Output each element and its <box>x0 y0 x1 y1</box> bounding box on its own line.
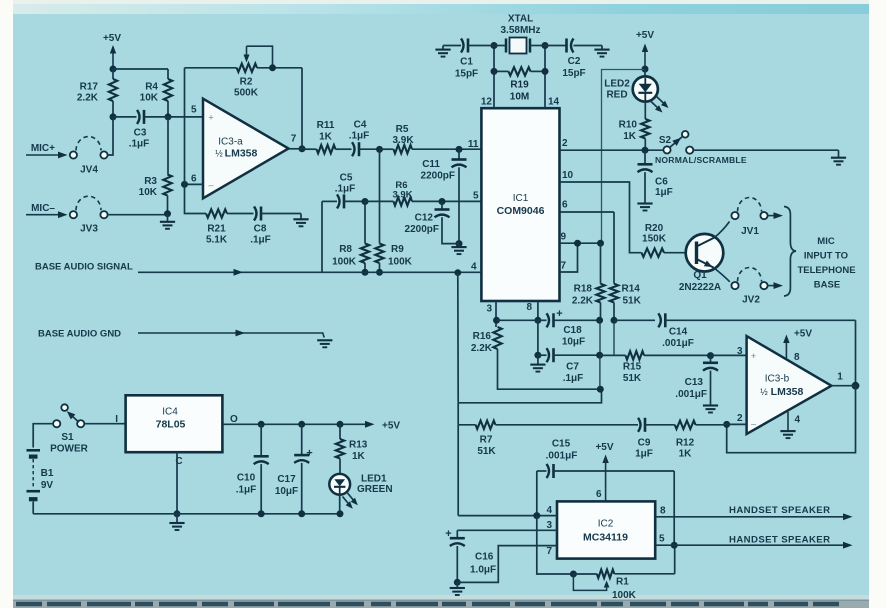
svg-text:S2: S2 <box>659 135 672 146</box>
ground (C8) <box>293 214 308 227</box>
svg-text:8: 8 <box>794 352 800 363</box>
resistor R10 <box>619 101 650 150</box>
svg-text:R14: R14 <box>622 284 641 295</box>
wire (pin2 stub) <box>727 423 747 425</box>
node F (R2 wiper tie) <box>269 64 276 71</box>
svg-text:R2: R2 <box>240 77 253 88</box>
capacitor C4 <box>349 120 380 157</box>
node AN (C10 bottom) <box>258 510 265 517</box>
svg-text:10: 10 <box>562 170 574 181</box>
svg-text:10μF: 10μF <box>275 486 298 497</box>
svg-text:–: – <box>208 180 213 190</box>
svg-text:+: + <box>208 113 213 123</box>
pin 7b label <box>561 261 567 272</box>
svg-text:R20: R20 <box>645 223 664 234</box>
svg-text:C13: C13 <box>685 377 704 388</box>
svg-text:6: 6 <box>562 200 568 211</box>
pin 6 label <box>562 200 568 211</box>
svg-text:2: 2 <box>737 413 743 424</box>
svg-text:11: 11 <box>468 139 479 150</box>
svg-text:HANDSET SPEAKER: HANDSET SPEAKER <box>729 535 830 546</box>
capacitor C16 (electrolytic) <box>445 528 496 582</box>
node AD (IC3-b output) <box>831 382 859 390</box>
svg-text:BASE AUDIO GND: BASE AUDIO GND <box>38 329 121 340</box>
node U (R18 top) <box>597 240 604 247</box>
svg-text:LM358: LM358 <box>771 386 804 398</box>
wire (C15 to pin5) <box>673 471 675 545</box>
wire (output to R2) <box>289 68 303 149</box>
ground (C6) <box>637 204 652 211</box>
svg-text:C1: C1 <box>460 57 473 68</box>
potentiometer R2 <box>185 46 303 98</box>
wire (IC1 pin2 row) <box>560 149 664 151</box>
node AE (pin2 node) <box>723 421 730 428</box>
pin 9 label <box>561 232 567 243</box>
svg-text:.1μF: .1μF <box>236 485 257 496</box>
wire (R14 line down) <box>613 320 615 355</box>
capacitor C5 <box>322 173 365 209</box>
svg-text:+5V: +5V <box>382 421 400 432</box>
svg-text:3.9K: 3.9K <box>392 135 414 146</box>
svg-text:C5: C5 <box>340 173 353 184</box>
node M (base-sig / R7 branch) <box>454 269 461 276</box>
svg-text:S1: S1 <box>61 432 74 443</box>
wire (IC1 pin10 to R20) <box>560 182 642 253</box>
svg-text:JV4: JV4 <box>80 165 98 176</box>
resistor R3 <box>139 117 172 214</box>
node V (pin3 bottom) <box>493 317 500 324</box>
svg-text:R7: R7 <box>480 435 493 446</box>
jumper JV1 <box>731 198 783 238</box>
svg-text:C17: C17 <box>277 474 296 485</box>
svg-text:INPUT TO: INPUT TO <box>804 251 848 262</box>
svg-text:C16: C16 <box>475 552 494 563</box>
resistor R13 <box>336 424 368 474</box>
node AI (pin5 node) <box>671 542 678 549</box>
svg-text:R12: R12 <box>676 438 695 449</box>
resistor R14 <box>610 212 642 320</box>
svg-text:.1μF: .1μF <box>129 139 150 150</box>
svg-text:BASE: BASE <box>814 280 840 291</box>
svg-text:.001μF: .001μF <box>675 389 707 400</box>
svg-text:1K: 1K <box>352 451 366 462</box>
node AA (C7 left) <box>534 352 541 359</box>
svg-text:10M: 10M <box>510 92 529 103</box>
node AL (C17 top) <box>298 421 305 428</box>
pin 2 label <box>562 138 568 149</box>
svg-text:51K: 51K <box>477 446 496 457</box>
node P (R19 left) <box>491 68 498 75</box>
resistor R21 <box>206 209 254 245</box>
svg-text:5.1K: 5.1K <box>206 235 228 246</box>
svg-text:BASE AUDIO SIGNAL: BASE AUDIO SIGNAL <box>35 262 133 273</box>
svg-text:1μF: 1μF <box>655 187 673 198</box>
svg-text:4: 4 <box>795 415 801 426</box>
svg-text:R16: R16 <box>473 331 492 342</box>
node AP (LED1 bottom) <box>337 510 344 517</box>
svg-text:1K: 1K <box>623 131 637 142</box>
svg-text:R17: R17 <box>80 82 99 93</box>
capacitor C3 <box>113 110 168 150</box>
pin 3 label (IC1) <box>486 304 492 315</box>
svg-text:C10: C10 <box>237 473 256 484</box>
svg-text:+5V: +5V <box>636 30 654 41</box>
wire (S1 to battery) <box>33 424 53 448</box>
svg-text:R9: R9 <box>391 244 404 255</box>
svg-text:4: 4 <box>471 262 477 273</box>
svg-text:100K: 100K <box>332 257 357 268</box>
node AM (R13 top) <box>337 421 344 428</box>
node AC (C13 tap) <box>707 352 714 359</box>
svg-text:12: 12 <box>481 97 493 108</box>
node Q (R19 right) <box>542 68 549 75</box>
svg-text:3: 3 <box>486 304 492 315</box>
svg-text:IC4: IC4 <box>162 407 178 418</box>
wire (gnd rail) <box>33 513 340 515</box>
capacitor C10 <box>236 424 269 514</box>
svg-text:C2: C2 <box>568 56 581 67</box>
svg-text:Q1: Q1 <box>693 270 707 281</box>
IC chip U-IC4 78L05 <box>115 395 238 467</box>
svg-text:IC3-a: IC3-a <box>218 137 243 148</box>
node X (R16/R18 junction) <box>597 386 604 393</box>
svg-text:XTAL: XTAL <box>508 14 533 25</box>
svg-text:6: 6 <box>596 489 602 500</box>
svg-text:.1μF: .1μF <box>250 235 271 246</box>
wire (C5 branch) <box>321 201 323 272</box>
wire (IC4 common) <box>176 452 178 514</box>
svg-text:100K: 100K <box>388 257 413 268</box>
resistor R9 <box>375 149 412 272</box>
svg-text:51K: 51K <box>623 296 642 307</box>
svg-text:150K: 150K <box>642 234 667 245</box>
node BASE-SIG R8 <box>362 269 369 276</box>
resistor R16 <box>471 327 600 389</box>
node R (+5V LED2) <box>642 66 649 73</box>
svg-text:R5: R5 <box>396 124 409 135</box>
ground (mic) <box>160 214 175 229</box>
crystal XTAL 3.58MHz <box>494 14 545 54</box>
jumper JV4 <box>26 117 113 176</box>
svg-text:IC2: IC2 <box>598 519 614 530</box>
node T (pin9) <box>574 240 581 247</box>
ground (C7 left) <box>530 355 545 371</box>
wire (pin4 row) <box>458 505 557 516</box>
svg-text:C14: C14 <box>669 327 688 338</box>
ground (scramble line) <box>831 150 846 165</box>
pin 4 label <box>471 262 477 273</box>
capacitor C6 <box>638 150 673 203</box>
ground (base audio gnd) <box>317 340 332 347</box>
svg-text:C12: C12 <box>415 213 434 224</box>
wire (IC1 pin6 row) <box>560 211 615 213</box>
capacitor C13 <box>675 356 718 406</box>
svg-text:10K: 10K <box>139 187 158 198</box>
resistor R7 <box>458 421 638 457</box>
svg-text:15pF: 15pF <box>562 68 585 79</box>
svg-text:½: ½ <box>215 149 223 159</box>
wire (C18 row to C14) <box>614 319 655 321</box>
op-amp U-IC3b <box>737 336 843 434</box>
svg-text:1K: 1K <box>319 132 333 143</box>
label HANDSET SPEAKER 2 <box>729 535 830 546</box>
svg-text:+: + <box>751 351 756 361</box>
capacitor C11 <box>421 149 467 243</box>
node AK (C10 top) <box>258 421 265 428</box>
node AB (C7/R18 line) <box>596 352 603 359</box>
node E (pin6) <box>181 181 188 188</box>
wire (feedback vertical) <box>184 68 186 185</box>
wire (pin7 row) <box>457 546 557 583</box>
LED LED2 <box>604 69 668 113</box>
svg-text:R18: R18 <box>574 284 593 295</box>
svg-text:IC1: IC1 <box>513 193 529 204</box>
svg-text:7: 7 <box>291 134 297 145</box>
pin 11 label <box>468 139 479 150</box>
svg-text:2200pF: 2200pF <box>405 224 439 235</box>
wire (S1 to IC4) <box>84 423 125 425</box>
svg-text:IC3-b: IC3-b <box>765 374 790 385</box>
svg-text:½: ½ <box>760 387 768 397</box>
svg-text:C7: C7 <box>566 362 579 373</box>
pin 8 label (IC1) <box>526 302 532 313</box>
svg-text:1.0μF: 1.0μF <box>470 565 496 576</box>
svg-text:9: 9 <box>561 232 567 243</box>
capacitor C17 (electrolytic) <box>275 424 313 514</box>
svg-text:2.2K: 2.2K <box>572 296 594 307</box>
resistor R8 <box>332 202 369 273</box>
wire (NORMAL/SCRAMBLE row) <box>655 150 839 165</box>
svg-text:5: 5 <box>659 534 665 545</box>
wire (branch to lower section) <box>458 273 602 425</box>
capacitor C15 <box>537 439 674 516</box>
power +5V (LED2) <box>636 30 654 69</box>
op-amp U-IC3a <box>191 99 297 199</box>
svg-text:C18: C18 <box>563 325 582 336</box>
svg-text:.1μF: .1μF <box>563 373 584 384</box>
node I (C11 tap) <box>456 146 463 153</box>
svg-text:51K: 51K <box>623 373 642 384</box>
node AH (R1 left) <box>570 571 577 578</box>
svg-text:7: 7 <box>546 546 552 557</box>
wire (R1 to pin5) <box>674 545 676 574</box>
svg-text:R19: R19 <box>510 80 529 91</box>
svg-text:8: 8 <box>660 506 666 517</box>
wire (pin3-pin8 tie) <box>497 319 538 321</box>
svg-text:JV2: JV2 <box>742 295 760 306</box>
jumper JV2 <box>731 268 783 306</box>
svg-text:.001μF: .001μF <box>662 338 694 349</box>
node J (C11/C12 gnd tie) <box>456 240 463 247</box>
svg-text:2.2K: 2.2K <box>471 343 493 354</box>
resistor R12 <box>675 421 727 460</box>
svg-text:C6: C6 <box>655 177 668 188</box>
capacitor C8 <box>250 207 301 246</box>
LED LED1 <box>329 474 392 514</box>
battery B1 9V <box>27 450 54 514</box>
svg-text:+5V: +5V <box>103 33 121 44</box>
jumper JV3 <box>26 196 168 234</box>
wire (IC3-b feedback) <box>727 386 856 453</box>
wire (IC1 pin9/7 tie) <box>560 243 601 272</box>
switch S1 <box>50 404 89 454</box>
capacitor C18 <box>538 308 600 348</box>
capacitor C1 <box>443 39 494 80</box>
svg-text:–: – <box>751 419 756 429</box>
wire <box>113 68 168 70</box>
svg-text:C8: C8 <box>254 224 267 235</box>
wire (R18 line low) <box>599 355 601 389</box>
svg-text:C9: C9 <box>638 438 651 449</box>
pin 5 label <box>473 191 479 202</box>
svg-text:R8: R8 <box>339 244 352 255</box>
node G (op-amp output pin7) <box>299 145 306 152</box>
resistor R19 <box>494 67 545 102</box>
ground (C11/C12) <box>451 244 466 255</box>
svg-text:R10: R10 <box>619 120 638 131</box>
svg-text:JV3: JV3 <box>80 224 98 235</box>
wire (C14 to output) <box>855 320 857 385</box>
svg-text:C3: C3 <box>134 128 147 139</box>
svg-text:MIC–: MIC– <box>31 203 55 214</box>
svg-text:COM9046: COM9046 <box>497 205 545 217</box>
ground (C2) <box>594 46 609 57</box>
svg-text:2: 2 <box>562 138 568 149</box>
label HANDSET SPEAKER 1 <box>729 505 830 516</box>
svg-text:1: 1 <box>837 372 843 383</box>
wire (IC1 pin8 down) <box>537 301 539 320</box>
svg-text:NORMAL/SCRAMBLE: NORMAL/SCRAMBLE <box>655 155 747 165</box>
ground (IC3-b pin4) <box>780 412 800 438</box>
node A (R17/R4 top) <box>110 66 117 73</box>
label +5V rail <box>382 421 400 432</box>
svg-text:.1μF: .1μF <box>349 131 370 142</box>
wire (pin3 row) <box>457 520 557 531</box>
svg-text:POWER: POWER <box>50 444 89 455</box>
svg-text:3.9K: 3.9K <box>392 190 412 201</box>
wire (pin5 row HANDSET) <box>655 534 852 549</box>
svg-text:2N2222A: 2N2222A <box>679 282 721 293</box>
IC chip U-IC1 COM9046 <box>481 108 559 301</box>
resistor R5 <box>380 124 482 153</box>
svg-text:15pF: 15pF <box>455 69 478 80</box>
svg-text:TELEPHONE: TELEPHONE <box>797 265 855 276</box>
svg-text:I: I <box>115 414 118 425</box>
pin 14 line <box>545 46 560 109</box>
node K (C5/R6/R8) <box>362 198 369 205</box>
svg-text:R3: R3 <box>144 176 157 187</box>
node B (C3/R17 junction) <box>110 113 117 120</box>
svg-text:R4: R4 <box>145 82 158 93</box>
wire (R18 line mid) <box>599 320 601 355</box>
wire (R3 top) <box>167 117 169 175</box>
svg-text:.001μF: .001μF <box>546 451 578 462</box>
svg-text:14: 14 <box>548 97 560 108</box>
svg-text:9V: 9V <box>41 480 54 491</box>
ground (C16) <box>450 582 465 595</box>
svg-text:R21: R21 <box>207 224 226 235</box>
wire <box>168 116 203 118</box>
svg-text:+5V: +5V <box>595 442 613 453</box>
svg-text:B1: B1 <box>41 468 54 479</box>
wire (pin6 to R21 row) <box>185 184 207 213</box>
brace (mic input) <box>784 207 796 297</box>
svg-text:1K: 1K <box>679 449 693 460</box>
net BASE AUDIO GND <box>38 329 324 340</box>
svg-text:3: 3 <box>546 520 552 531</box>
label MIC INPUT TO TELEPHONE BASE <box>797 236 855 291</box>
svg-text:3: 3 <box>737 346 743 357</box>
svg-text:HANDSET SPEAKER: HANDSET SPEAKER <box>729 505 830 516</box>
wire (pin3 stub IC3b) <box>711 354 747 356</box>
svg-text:500K: 500K <box>234 88 259 99</box>
resistor R15 <box>623 351 711 384</box>
capacitor C2 <box>545 39 602 80</box>
IC chip U-IC2 MC34119 <box>557 501 655 558</box>
svg-text:R11: R11 <box>317 120 335 131</box>
wire (pin8 row HANDSET) <box>655 506 852 521</box>
node BASE-SIG R9 <box>376 269 383 276</box>
node AF (pin4/C15) <box>533 512 540 519</box>
wire (R18 pullup thin) <box>602 70 645 244</box>
svg-text:LED2: LED2 <box>604 79 630 90</box>
potentiometer R1 <box>573 570 674 601</box>
wire (+5V rail) <box>222 421 374 428</box>
svg-text:MC34119: MC34119 <box>583 532 628 544</box>
ground (IC4 common) <box>169 514 184 530</box>
capacitor C12 <box>405 202 459 244</box>
svg-text:7: 7 <box>561 261 567 272</box>
wire (IC1 pin3 down) <box>495 301 497 327</box>
capacitor C7 <box>538 348 600 384</box>
ground (C13) <box>703 406 718 413</box>
svg-text:C4: C4 <box>354 120 367 131</box>
svg-text:RED: RED <box>606 90 627 101</box>
transistor Q1 2N2222A <box>679 222 730 294</box>
node D (R3 bottom / MIC- / gnd) <box>164 210 171 217</box>
svg-text:LM358: LM358 <box>225 148 258 160</box>
switch S2 <box>659 131 693 154</box>
svg-text:3.58MHz: 3.58MHz <box>500 25 540 36</box>
svg-text:6: 6 <box>191 174 197 185</box>
svg-text:MIC+: MIC+ <box>31 143 55 154</box>
net BASE AUDIO SIGNAL <box>35 262 481 276</box>
capacitor C9 <box>635 418 675 460</box>
resistor R17 <box>77 69 117 117</box>
node Y (C18/R18) <box>596 317 603 324</box>
svg-text:+: + <box>556 308 562 320</box>
ground (C1) <box>435 46 450 57</box>
resistor R18 <box>572 243 605 320</box>
resistor R6 <box>365 180 481 206</box>
svg-text:.1μF: .1μF <box>335 184 356 195</box>
svg-text:2200pF: 2200pF <box>421 171 455 182</box>
svg-text:100K: 100K <box>612 590 637 601</box>
wire (R7 branch down) <box>457 425 459 516</box>
svg-text:8: 8 <box>526 302 532 313</box>
power +5V (IC2 pin6) <box>595 442 613 501</box>
node H (C4/R5/R9) <box>376 146 383 153</box>
wire (C7 row to R15) <box>600 354 626 356</box>
pin 10 label <box>562 170 574 181</box>
svg-text:C15: C15 <box>552 439 571 450</box>
node O (xtal right) <box>542 42 549 49</box>
power +5V rail (mic preamp) <box>103 33 121 69</box>
svg-text:JV1: JV1 <box>741 226 759 237</box>
svg-text:5: 5 <box>191 105 197 116</box>
node W (pin8 bottom) <box>534 317 541 324</box>
node AJ (gnd rail C) <box>174 510 181 517</box>
